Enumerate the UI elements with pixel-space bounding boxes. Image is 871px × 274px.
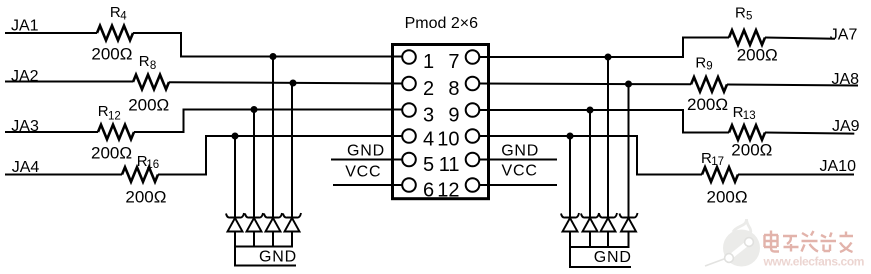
svg-text:R: R [735,4,746,21]
diode D2 (zener) [245,213,263,218]
svg-text:JA9: JA9 [832,118,860,135]
resistor R13 [729,125,765,140]
watermark logo [705,219,760,267]
svg-text:VCC: VCC [345,163,381,180]
resistor R17 [702,167,738,182]
resistor R16 [122,167,158,182]
svg-text:200Ω: 200Ω [91,45,132,64]
wire vertical JA7 to D7 [607,57,609,218]
wire VCC right to pin12 [479,184,557,186]
svg-text:8: 8 [448,78,459,100]
svg-text:GND: GND [347,142,385,159]
diode D1 (zener) [226,213,244,218]
resistor R9 [691,77,727,92]
junction dot JA1 [270,53,277,60]
svg-text:VCC: VCC [502,163,538,180]
diode D7 (zener) [599,213,617,218]
resistor R12 [98,125,134,140]
svg-text:JA4: JA4 [12,159,40,176]
wire vertical JA4 to D1 [234,136,236,218]
junction dot JA10 [567,133,574,140]
wire JA4 [5,174,122,176]
svg-text:200Ω: 200Ω [91,144,132,163]
svg-text:JA8: JA8 [832,71,860,88]
svg-text:12: 12 [437,179,459,201]
svg-text:4: 4 [423,128,434,150]
junction dot JA2 [290,80,297,87]
wire vertical JA1 to D3 [272,57,274,218]
svg-text:6: 6 [423,179,434,201]
diode D8 (zener) [620,213,638,218]
wire R13 to JA9 [765,133,854,134]
svg-text:R: R [110,4,121,21]
svg-text:8: 8 [150,60,156,72]
junction dot JA3 [251,106,258,113]
wire vertical JA8 to D8 [628,84,630,218]
wire GND bus left [234,246,293,248]
pin 11 [466,153,480,167]
svg-text:www.elecfans.com: www.elecfans.com [763,255,865,269]
connector U1 body [393,45,489,199]
wire R8 to pin2 [169,82,403,83]
pin 2 [402,77,416,91]
svg-text:JA7: JA7 [830,26,858,43]
svg-text:200Ω: 200Ω [731,140,772,159]
wire vertical JA9 to D6 [589,110,591,218]
svg-text:200Ω: 200Ω [687,95,728,114]
wire R16 to pin4 [158,136,403,175]
diode D4 (zener) [283,213,301,218]
ground right [570,247,631,267]
resistor R8 [133,75,169,90]
wire pin9 to R13 [479,110,729,133]
svg-text:12: 12 [108,111,121,123]
svg-text:Pmod 2×6: Pmod 2×6 [405,15,478,32]
pin 1 [402,50,416,64]
pin 10 [466,129,480,143]
wire JA2 [5,81,133,83]
pin 7 [466,50,480,64]
svg-text:R: R [695,54,706,71]
wire vertical JA3 to D2 [253,110,255,218]
svg-text:GND: GND [501,142,539,159]
resistor R4 [97,26,133,41]
svg-text:3: 3 [423,105,434,127]
wire pin8 to R9 [479,83,691,86]
watermark text [764,231,853,253]
wire pin10 to R17 [479,136,702,175]
wire GND right to pin11 [479,159,557,161]
wire JA1 [5,32,97,34]
junction dot JA4 [232,133,239,140]
pin 12 [466,178,480,192]
pin 6 [402,178,416,192]
wire R5 to JA7 [765,38,835,39]
resistor R5 [729,30,765,45]
svg-text:5: 5 [423,154,434,176]
diode D3 (zener) [264,213,282,218]
pin 8 [466,77,480,91]
svg-text:9: 9 [706,61,712,73]
svg-text:13: 13 [743,110,756,122]
wire vertical JA10 to D5 [569,136,571,218]
pin 9 [466,103,480,117]
svg-text:2: 2 [423,78,434,100]
pin 5 [402,153,416,167]
pin 3 [402,103,416,117]
svg-text:9: 9 [448,105,459,127]
svg-text:5: 5 [746,10,752,22]
svg-text:17: 17 [711,156,724,168]
wire vertical JA2 to D4 [291,83,293,218]
wire pin7 to R5 [479,38,729,58]
svg-text:R: R [139,53,150,70]
svg-text:JA10: JA10 [820,158,857,175]
svg-text:16: 16 [146,159,159,171]
wire R9 to JA8 [727,85,858,86]
svg-text:10: 10 [437,128,459,150]
junction dot JA7 [605,54,612,61]
wire JA3 [5,131,98,133]
wire R12 to pin3 [134,110,403,133]
svg-text:GND: GND [594,249,632,266]
diode D6 (zener) [581,213,599,218]
wire GND left to pin5 [331,159,403,161]
wire GND bus right [569,246,630,248]
svg-text:GND: GND [259,248,297,265]
wire R4 to pin1 [133,33,403,57]
svg-text:1: 1 [423,51,434,73]
junction dot JA9 [587,107,594,114]
svg-text:200Ω: 200Ω [128,95,169,114]
pin 4 [402,129,416,143]
svg-text:7: 7 [448,51,459,73]
svg-text:11: 11 [439,154,460,176]
wire VCC left to pin6 [333,184,403,186]
wire R17 to JA10 [738,174,854,176]
svg-text:200Ω: 200Ω [707,188,748,207]
svg-text:200Ω: 200Ω [737,45,778,64]
diode D5 (zener) [561,213,579,218]
ground left [235,247,296,266]
svg-text:200Ω: 200Ω [125,188,166,207]
svg-text:4: 4 [120,11,127,23]
junction dot JA8 [625,81,632,88]
